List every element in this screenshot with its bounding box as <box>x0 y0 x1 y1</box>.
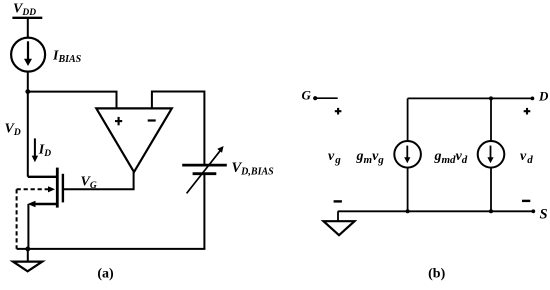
node top rail right source <box>489 96 493 100</box>
wire top rail down to right source <box>490 98 492 141</box>
label plus left <box>335 108 342 115</box>
wire node to op-amp plus input <box>28 92 117 109</box>
wire node down to drain <box>27 92 29 177</box>
terminal S <box>531 207 547 223</box>
top rail wire b <box>408 97 533 99</box>
node bottom rail left source <box>406 209 410 213</box>
node drain junction <box>25 89 30 94</box>
node ground junction <box>25 247 30 252</box>
bottom rail wire <box>17 248 206 250</box>
bottom rail wire b <box>338 210 534 212</box>
wire right source to bottom rail <box>490 167 492 211</box>
svg-text:(a): (a) <box>97 267 114 282</box>
op-amp U1 <box>96 108 172 172</box>
current source gm vg <box>394 141 421 168</box>
terminal D <box>531 88 550 103</box>
label minus left <box>334 200 342 202</box>
svg-text:G: G <box>302 88 312 103</box>
current source IBIAS <box>11 38 45 72</box>
transistor M1 <box>28 168 63 208</box>
wire current source to node <box>27 71 29 92</box>
node bottom rail right source <box>489 209 493 213</box>
battery VD,BIAS variable <box>182 146 227 193</box>
wire battery bottom to bottom rail <box>203 175 205 249</box>
wire op-amp minus input to battery top <box>152 92 205 165</box>
ground symbol b <box>324 211 355 235</box>
ground symbol a <box>13 249 42 271</box>
wire top rail down to left source <box>407 98 409 141</box>
dashed feedback path with arrow <box>17 186 55 249</box>
wire VDD to current source <box>27 18 29 39</box>
terminal G <box>302 88 338 103</box>
label plus right <box>524 108 531 115</box>
wire left source to bottom rail <box>407 167 409 211</box>
wire op-amp output to gate <box>64 172 134 189</box>
svg-text:S: S <box>540 207 548 223</box>
svg-text:D: D <box>538 88 549 103</box>
power rail VDD bar <box>12 17 42 19</box>
current arrow ID <box>32 138 38 162</box>
current source gmd vd <box>478 141 505 168</box>
label minus right <box>522 200 530 202</box>
wire source down to bottom node <box>27 204 29 249</box>
svg-text:(b): (b) <box>428 267 445 282</box>
